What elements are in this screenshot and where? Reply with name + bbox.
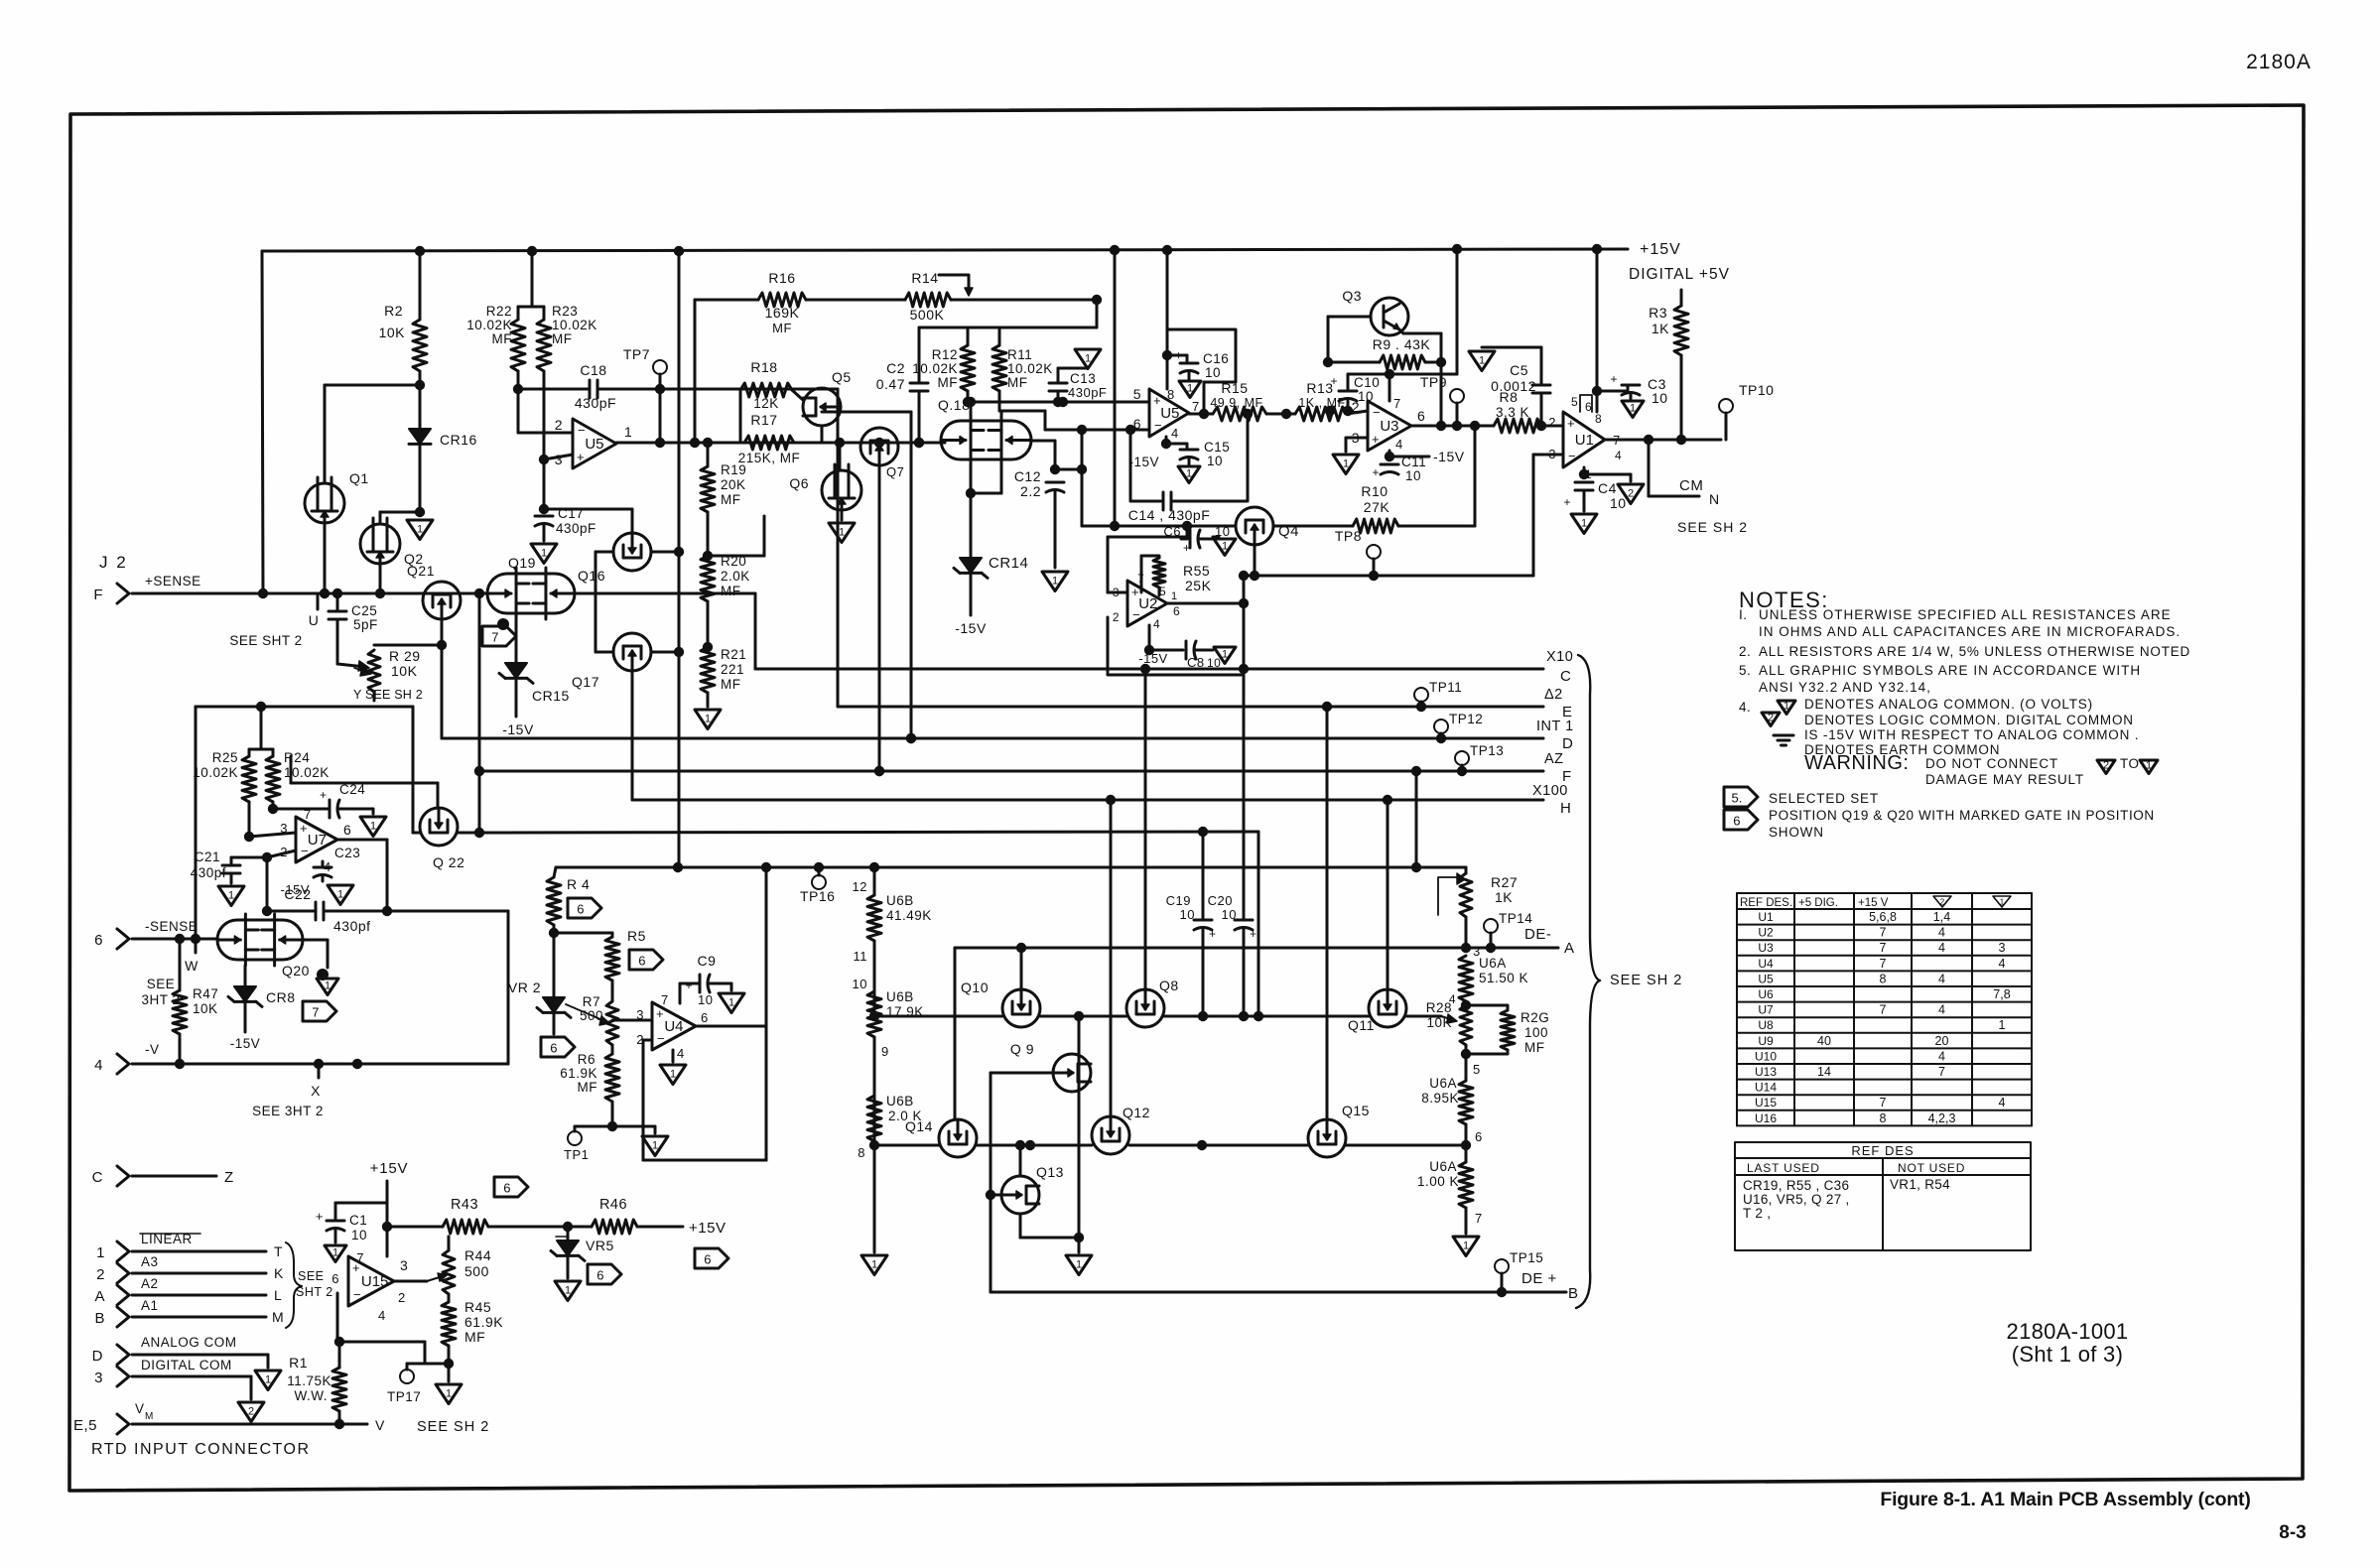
svg-text:430pf: 430pf: [333, 918, 371, 934]
svg-text:Q14: Q14: [905, 1118, 933, 1134]
resistor R15: [1213, 407, 1266, 421]
resistor U6B 41.49K: [867, 895, 881, 941]
U5b C16 box: [1167, 329, 1236, 414]
resistor R11: [998, 327, 1001, 345]
svg-text:61.9K: 61.9K: [560, 1066, 597, 1081]
resistor R13: [1295, 407, 1347, 421]
svg-text:CR19, R55 , C36: CR19, R55 , C36: [1743, 1178, 1849, 1193]
ground at Q20: [303, 939, 328, 942]
svg-text:C18: C18: [580, 362, 606, 378]
svg-text:1: 1: [446, 1387, 452, 1399]
svg-text:+: +: [320, 788, 328, 802]
op-amp U3: [1368, 401, 1411, 451]
svg-text:C14 , 430pF: C14 , 430pF: [1128, 507, 1211, 523]
svg-text:C22: C22: [284, 886, 311, 902]
svg-text:C9: C9: [698, 953, 717, 969]
svg-text:Q8: Q8: [1159, 978, 1179, 993]
svg-text:U5: U5: [585, 436, 603, 453]
svg-text:MF: MF: [464, 1329, 485, 1345]
svg-text:7,8: 7,8: [1993, 987, 2010, 1001]
capacitor C14 box: [1130, 430, 1161, 501]
test point TP10: [1719, 399, 1733, 413]
flag7 under Q19: [482, 626, 516, 646]
svg-text:1: 1: [1343, 457, 1349, 469]
svg-text:Q10: Q10: [961, 980, 989, 995]
svg-text:1: 1: [652, 1139, 658, 1151]
svg-text:CR16: CR16: [440, 432, 477, 448]
svg-text:Q5: Q5: [832, 369, 852, 385]
svg-text:C: C: [92, 1169, 103, 1186]
svg-text:169K: 169K: [765, 305, 800, 321]
wire x197 drop: [195, 707, 198, 939]
svg-text:1: 1: [1630, 402, 1636, 414]
wire R10 to U3out: [1474, 426, 1477, 526]
svg-text:1: 1: [1052, 575, 1058, 587]
ground under C21: [218, 886, 244, 906]
resistor U6B 17.9K: [869, 1011, 879, 1021]
svg-text:M: M: [272, 1309, 284, 1325]
svg-text:CR8: CR8: [266, 989, 296, 1005]
svg-text:61.9K: 61.9K: [464, 1314, 503, 1330]
marker dot Q19: [497, 618, 509, 630]
test point TP8: [1367, 545, 1381, 559]
ground under C15: [1178, 466, 1200, 483]
svg-text:V: V: [375, 1417, 385, 1433]
svg-text:4: 4: [1999, 957, 2006, 971]
wire U3 pin3: [1346, 437, 1368, 440]
ground at C24: [372, 809, 375, 814]
capacitor C20: [1243, 576, 1246, 918]
svg-text:11: 11: [854, 949, 868, 964]
wire Q13 drain: [1019, 1145, 1022, 1176]
resistor R23: [537, 320, 551, 371]
wire U7 pin3: [249, 833, 296, 837]
svg-text:Q12: Q12: [1123, 1105, 1150, 1120]
svg-text:VR5: VR5: [586, 1238, 614, 1253]
svg-text:MF: MF: [721, 677, 741, 692]
capacitor C1: [335, 1202, 387, 1205]
svg-text:D: D: [92, 1348, 103, 1365]
svg-text:6: 6: [1417, 408, 1425, 424]
dual fet Q18: [941, 421, 1031, 459]
svg-text:-15V: -15V: [955, 620, 987, 636]
svg-text:+: +: [1153, 393, 1161, 408]
svg-text:DE-: DE-: [1524, 926, 1551, 943]
ground under R21: [695, 710, 721, 729]
svg-text:−: −: [1132, 607, 1140, 622]
wire pin5 row: [971, 401, 1149, 404]
label W see sht2: [195, 939, 198, 953]
svg-text:-V: -V: [145, 1042, 160, 1057]
svg-text:5.: 5.: [1731, 791, 1742, 806]
zener CR8: [244, 966, 247, 986]
IC power pin table: [1736, 893, 1738, 1125]
svg-text:+: +: [1250, 927, 1257, 941]
svg-text:C16: C16: [1203, 351, 1229, 366]
svg-text:A2: A2: [141, 1276, 159, 1291]
svg-text:U4: U4: [664, 1018, 683, 1035]
pin 6 -SENSE: [117, 929, 129, 949]
resistor R27 pot: [1465, 867, 1468, 873]
svg-text:-SENSE: -SENSE: [145, 919, 198, 934]
svg-text:40: 40: [1817, 1034, 1831, 1048]
wire U1 pin3 row: [1533, 454, 1563, 457]
pin C: [117, 1166, 129, 1186]
svg-text:−: −: [1373, 405, 1381, 420]
capacitor C15: [1165, 437, 1168, 444]
resistor R47: [179, 939, 182, 990]
row Q1016 wire: [876, 1015, 1002, 1018]
svg-text:R18: R18: [750, 359, 777, 375]
capacitor C25: [336, 593, 339, 609]
svg-text:1: 1: [1187, 382, 1193, 394]
svg-text:U10: U10: [1755, 1049, 1777, 1063]
svg-text:1,4: 1,4: [1933, 910, 1950, 924]
svg-text:7: 7: [1475, 1211, 1483, 1226]
svg-text:R11: R11: [1007, 347, 1032, 362]
bracket TKLM: [286, 1242, 302, 1328]
dual fet Q19: [487, 574, 575, 613]
svg-text:Q.18: Q.18: [938, 397, 970, 413]
svg-text:A: A: [1564, 940, 1575, 957]
zener VR2: [543, 997, 565, 1012]
svg-text:1: 1: [1076, 1258, 1082, 1270]
wire Q21 gate chain: [441, 619, 444, 738]
wire R45 bottom: [448, 1364, 451, 1381]
svg-text:U16: U16: [1755, 1111, 1777, 1125]
transistor Q3: [1371, 298, 1408, 335]
test point TP16: [818, 867, 821, 875]
pin 3 digital com: [117, 1367, 129, 1386]
svg-text:1: 1: [228, 889, 234, 901]
wire Q7 down to AZ: [878, 465, 881, 771]
svg-text:+: +: [300, 821, 308, 836]
svg-text:1: 1: [728, 996, 734, 1008]
svg-text:Q 9: Q 9: [1010, 1041, 1034, 1057]
svg-text:+: +: [577, 450, 585, 464]
svg-text:8: 8: [1880, 972, 1887, 985]
svg-text:8: 8: [1880, 1111, 1887, 1125]
wire Q4 right: [1273, 525, 1353, 528]
svg-text:1: 1: [337, 888, 343, 900]
svg-text:WARNING:: WARNING:: [1804, 752, 1909, 774]
transistor Q12: [1092, 1116, 1129, 1154]
test point TP11: [1414, 688, 1428, 702]
svg-text:U7: U7: [1758, 1003, 1774, 1017]
wire U15 out: [394, 1280, 427, 1283]
svg-text:4,2,3: 4,2,3: [1928, 1111, 1956, 1125]
wire signal row U5a-Q18: [744, 442, 945, 445]
svg-text:Y SEE SH 2: Y SEE SH 2: [353, 688, 423, 702]
transistor Q5: [803, 388, 841, 426]
wire U7 out: [337, 839, 387, 842]
svg-text:2: 2: [1352, 399, 1360, 415]
svg-text:1: 1: [871, 1258, 877, 1270]
svg-text:4: 4: [1938, 941, 1945, 955]
resistor R17: [744, 436, 794, 450]
op-amp U1: [1563, 412, 1605, 467]
wire R20 tap: [708, 555, 764, 558]
svg-text:R28: R28: [1426, 1000, 1452, 1015]
svg-text:CR15: CR15: [532, 688, 570, 704]
svg-text:1: 1: [1479, 354, 1485, 366]
svg-text:U15: U15: [1755, 1096, 1777, 1110]
flag note 5: [1724, 787, 1758, 807]
svg-text:1K , MF: 1K , MF: [1298, 396, 1345, 410]
wire U15 to R44: [448, 1237, 451, 1250]
svg-text:7: 7: [1880, 1096, 1887, 1110]
ground right of TP1: [654, 1126, 657, 1133]
svg-text:430pF: 430pF: [556, 521, 596, 536]
resistor R2: [413, 320, 427, 371]
svg-text:D: D: [1562, 735, 1573, 752]
zener VR5: [567, 1227, 570, 1241]
svg-text:R16: R16: [768, 270, 795, 286]
wire R16 row: [695, 299, 758, 302]
svg-text:U2: U2: [1138, 595, 1157, 612]
svg-text:Q13: Q13: [1036, 1164, 1064, 1180]
wire C18 row ext: [660, 388, 838, 391]
svg-text:MF: MF: [1524, 1040, 1545, 1055]
transistor Q15: [1308, 1119, 1346, 1157]
resistor R3: [1674, 306, 1688, 355]
resistor R16: [758, 293, 806, 307]
resistor R19: [707, 443, 710, 466]
svg-text:6: 6: [503, 1181, 510, 1196]
svg-text:CR14: CR14: [989, 555, 1028, 572]
capacitor C2: [918, 327, 921, 381]
svg-text:0.0012: 0.0012: [1491, 378, 1536, 394]
svg-text:X: X: [311, 1083, 321, 1099]
label X see sht2: [318, 1064, 321, 1078]
capacitor C6: [1186, 526, 1189, 539]
svg-text:DENOTES LOGIC COMMON. DIGITA: DENOTES LOGIC COMMON. DIGITAL COMMON: [1804, 713, 2134, 727]
resistor R6: [605, 1054, 619, 1102]
wire Q2 to F row: [379, 564, 382, 593]
wire x684 drop: [678, 251, 681, 867]
capacitor C17: [543, 459, 546, 509]
svg-text:100: 100: [1524, 1025, 1548, 1040]
svg-text:10K: 10K: [1426, 1015, 1452, 1030]
ground under U4: [672, 1050, 675, 1062]
svg-text:2: 2: [1628, 487, 1634, 499]
svg-text:SEE SH 2: SEE SH 2: [417, 1419, 489, 1435]
svg-text:10K: 10K: [391, 663, 418, 679]
svg-text:1: 1: [325, 980, 331, 991]
svg-text:ANALOG COM: ANALOG COM: [141, 1335, 237, 1350]
svg-text:R24: R24: [284, 750, 310, 765]
svg-text:7: 7: [304, 807, 312, 822]
wire CM branch: [1648, 440, 1651, 496]
svg-text:4: 4: [1395, 437, 1403, 452]
svg-text:C: C: [1560, 668, 1571, 685]
svg-text:SEE: SEE: [147, 977, 176, 991]
wire pin2 dots: [1325, 406, 1335, 416]
resistor R28 pot: [1460, 1005, 1472, 1045]
svg-text:10: 10: [853, 977, 867, 991]
svg-text:C21: C21: [195, 849, 220, 864]
wire U4 pin3: [612, 1019, 652, 1022]
svg-text:10: 10: [1405, 468, 1421, 483]
svg-text:R10: R10: [1361, 483, 1388, 499]
svg-text:3: 3: [400, 1257, 408, 1273]
svg-text:-15V: -15V: [1433, 449, 1465, 464]
svg-text:RTD INPUT CONNECTOR: RTD INPUT CONNECTOR: [91, 1441, 311, 1458]
svg-text:U15: U15: [361, 1273, 389, 1290]
pin B A1: [117, 1307, 129, 1327]
svg-text:C13: C13: [1070, 371, 1096, 386]
svg-text:7: 7: [1938, 1065, 1945, 1079]
resistor R18 bypass: [739, 390, 742, 443]
note 4 logic common: [1762, 713, 1780, 726]
svg-text:4: 4: [1171, 426, 1179, 441]
svg-text:R44: R44: [464, 1247, 491, 1263]
op-amp U15: [348, 1256, 394, 1306]
flag note 6: [1724, 810, 1758, 830]
svg-text:10.02K: 10.02K: [284, 765, 330, 780]
svg-text:2.0K: 2.0K: [721, 569, 750, 584]
svg-text:R45: R45: [464, 1299, 491, 1315]
svg-text:TP8: TP8: [1335, 528, 1362, 544]
svg-text:221: 221: [721, 662, 744, 677]
svg-text:ALL RESISTORS ARE 1/4 W, 5%: ALL RESISTORS ARE 1/4 W, 5% UNLESS OTHER…: [1759, 644, 2190, 659]
svg-text:7: 7: [1192, 399, 1200, 414]
transistor Q6: [822, 470, 861, 510]
svg-text:10: 10: [1205, 365, 1221, 380]
svg-text:1: 1: [1999, 1018, 2006, 1032]
svg-text:10: 10: [1222, 907, 1237, 922]
wire U3 pin7: [1388, 374, 1391, 401]
brace to sheet2 upper: [1576, 655, 1600, 1308]
wire TP7 to U5 out: [659, 389, 662, 443]
ground under R45: [436, 1384, 462, 1404]
svg-text:6: 6: [577, 902, 584, 917]
svg-text:M: M: [145, 1411, 154, 1422]
svg-text:14: 14: [1817, 1065, 1831, 1079]
svg-text:A3: A3: [141, 1254, 159, 1269]
transistor Q8: [1126, 989, 1164, 1027]
svg-text:U5: U5: [1758, 972, 1774, 985]
transistor Q10: [1002, 989, 1040, 1027]
test point TP1: [574, 1126, 577, 1131]
svg-text:5.: 5.: [1739, 663, 1751, 678]
svg-text:NOT USED: NOT USED: [1898, 1161, 1965, 1175]
capacitor C8: [1148, 625, 1151, 650]
svg-text:C2: C2: [886, 360, 905, 376]
svg-text:R14: R14: [911, 270, 938, 286]
svg-text:5,6,8: 5,6,8: [1869, 910, 1897, 924]
svg-text:R5: R5: [627, 928, 646, 944]
wire U2 out: [1167, 602, 1244, 605]
ground at C8: [1214, 647, 1236, 664]
capacitor C4: [1583, 467, 1586, 474]
svg-text:4: 4: [1153, 617, 1160, 631]
capacitor C3: [1597, 390, 1628, 393]
svg-text:430pF: 430pF: [1068, 385, 1107, 400]
wire R11 to pin6 row: [999, 410, 1045, 413]
resistor R29 pot: [368, 650, 380, 692]
svg-text:12: 12: [853, 879, 867, 894]
svg-text:U16, VR5, Q 27 ,: U16, VR5, Q 27 ,: [1743, 1192, 1850, 1207]
label U see sht2: [317, 593, 320, 609]
svg-text:5: 5: [1133, 386, 1141, 402]
svg-text:5: 5: [1473, 1062, 1481, 1077]
svg-text:10.02K: 10.02K: [466, 318, 512, 332]
svg-text:1: 1: [1463, 1240, 1469, 1251]
svg-text:2: 2: [1113, 610, 1120, 624]
svg-text:Q19: Q19: [508, 555, 536, 571]
svg-text:3: 3: [1999, 941, 2006, 955]
diode CR16: [419, 385, 422, 429]
ground analog com: [255, 1371, 281, 1390]
svg-text:9: 9: [881, 1044, 889, 1059]
transistor Q16: [613, 533, 651, 571]
svg-text:8: 8: [1595, 412, 1602, 426]
pin A A2: [117, 1285, 129, 1305]
svg-text:430pf: 430pf: [191, 865, 226, 880]
svg-text:6: 6: [704, 1252, 711, 1267]
svg-text:1: 1: [541, 547, 547, 559]
svg-text:POSITION Q19 & Q20 WITH MARKED: POSITION Q19 & Q20 WITH MARKED GATE IN P…: [1769, 808, 2155, 823]
ground under U6B: [861, 1255, 887, 1275]
svg-text:Q20: Q20: [282, 963, 310, 979]
pin D analog com: [117, 1345, 129, 1365]
svg-text:MF: MF: [721, 584, 741, 598]
svg-text:500K: 500K: [910, 307, 945, 323]
svg-text:4: 4: [378, 1308, 386, 1323]
wire U4 out: [696, 1025, 766, 1028]
wire U5a out row: [616, 442, 744, 445]
resistor U6B 2.0K: [869, 1140, 879, 1150]
svg-text:C19: C19: [1166, 893, 1191, 908]
svg-text:R55: R55: [1183, 563, 1210, 579]
op-amp U4: [652, 1002, 696, 1050]
svg-text:10: 10: [1207, 454, 1223, 468]
wire C12 to Q4row: [1055, 468, 1082, 471]
svg-text:2: 2: [1940, 898, 1945, 907]
svg-text:MF: MF: [578, 1080, 598, 1095]
svg-text:4: 4: [1938, 1003, 1945, 1017]
svg-text:10.02K: 10.02K: [912, 361, 958, 376]
flag7 under Q20: [303, 1001, 336, 1021]
resistor R55: [1141, 556, 1159, 558]
svg-text:R1: R1: [289, 1355, 308, 1371]
+15V top rail wire: [262, 249, 1628, 251]
wire x1268 drop: [1257, 832, 1260, 1016]
svg-text:SEE: SEE: [298, 1269, 325, 1283]
resistor R20: [703, 551, 713, 561]
svg-text:C4: C4: [1598, 480, 1617, 496]
row INT1 wire: [442, 737, 1543, 740]
svg-text:TP14: TP14: [1499, 911, 1532, 926]
wire U3 out row: [1411, 425, 1494, 428]
svg-text:1: 1: [565, 1284, 571, 1296]
Q18 top drops: [970, 402, 973, 415]
capacitor C16: [1167, 354, 1187, 357]
svg-text:7: 7: [356, 1250, 364, 1265]
svg-text:1: 1: [624, 424, 632, 440]
svg-text:1K: 1K: [1495, 889, 1513, 905]
pin F: [117, 584, 129, 603]
svg-text:SHOWN: SHOWN: [1769, 825, 1824, 840]
transistor Q7: [860, 428, 898, 465]
svg-text:Figure 8-1. A1 Main PCB Assemb: Figure 8-1. A1 Main PCB Assembly (cont): [1880, 1489, 2250, 1510]
resistor R14 pot: [905, 293, 951, 307]
wire x1090 up: [1081, 430, 1084, 469]
svg-text:Q16: Q16: [578, 568, 605, 584]
svg-text:2.: 2.: [1739, 644, 1751, 659]
svg-text:W: W: [185, 958, 198, 974]
